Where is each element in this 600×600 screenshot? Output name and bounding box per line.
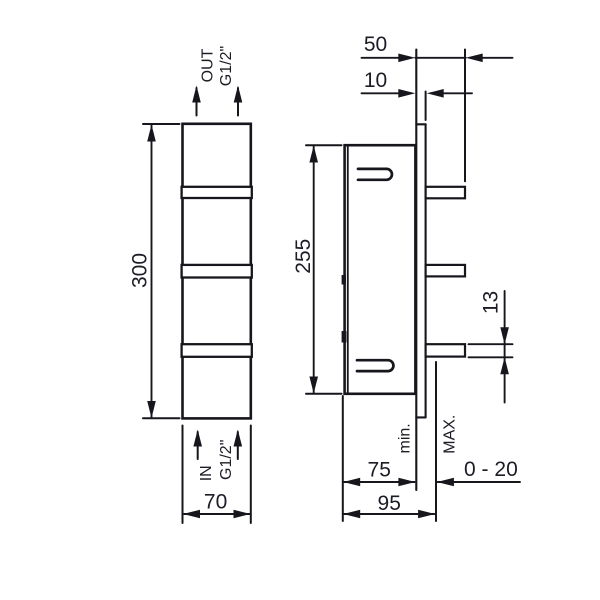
svg-text:255: 255 <box>292 239 315 274</box>
dimension 13 line <box>504 291 506 403</box>
bracket 2 <box>426 265 465 277</box>
IN arrow left (up) <box>193 430 202 447</box>
svg-text:75: 75 <box>368 459 391 482</box>
OUT arrow stems <box>196 88 198 116</box>
flange top closure <box>416 123 425 125</box>
dimension 75 line <box>344 481 415 483</box>
255 bottom arrow (down) <box>309 377 318 394</box>
300 bottom arrow (down) <box>147 401 156 418</box>
dimension 13 tick top <box>469 343 513 345</box>
dimension 0-20 line <box>438 481 520 483</box>
svg-text:0 - 20: 0 - 20 <box>464 458 518 481</box>
95 right arrow <box>418 510 435 519</box>
255 top arrow (up) <box>309 146 318 163</box>
IN arrow stems <box>197 432 199 459</box>
dimension 300 extension tick bottom <box>143 417 180 419</box>
dimension 255 tick bottom <box>306 393 342 395</box>
10 right arrow (points left) <box>427 89 444 98</box>
IN arrow right (up) <box>234 430 243 447</box>
300 top arrow (up) <box>147 125 156 142</box>
dimension 10 line left part <box>362 92 401 94</box>
dimension 300 extension tick top <box>143 123 180 125</box>
left view bar 2 <box>182 265 252 278</box>
left view body <box>183 124 251 419</box>
dimension 70 line <box>184 513 250 515</box>
10 left arrow (points right) <box>398 89 415 98</box>
flange bottom closure <box>416 416 425 418</box>
dimension 13 tick bottom <box>469 356 513 358</box>
dimension 255 line <box>313 146 315 393</box>
0-20 arrow (points left) <box>437 478 454 487</box>
dimension 255 tick top <box>306 144 342 146</box>
svg-text:G1/2": G1/2" <box>218 440 235 480</box>
svg-text:300: 300 <box>129 253 152 288</box>
bracket 3 <box>426 344 465 356</box>
95 left arrow <box>343 510 360 519</box>
svg-text:10: 10 <box>364 69 387 92</box>
extension line x=465 for 50-dim <box>464 50 466 182</box>
left bottom extension of right view <box>342 396 344 521</box>
50 right arrow (points left) <box>466 54 483 63</box>
left view bar 1 <box>182 187 252 198</box>
svg-text:MAX.: MAX. <box>442 415 459 454</box>
small face mark 2 on right view <box>342 331 347 343</box>
right view bottom slot <box>357 360 393 371</box>
small face mark 1 on right view <box>342 275 346 285</box>
svg-text:50: 50 <box>364 33 387 56</box>
svg-text:G1/2": G1/2" <box>218 46 235 86</box>
13 bottom arrow (up) <box>500 357 509 374</box>
svg-text:13: 13 <box>480 291 503 314</box>
svg-text:95: 95 <box>378 492 401 515</box>
OUT arrow left (up) <box>192 86 201 103</box>
left view bottom extension line right <box>250 426 252 524</box>
left view bottom extension line left <box>182 426 184 524</box>
70 left arrow <box>183 510 200 519</box>
75 left arrow <box>343 478 360 487</box>
dimension 10 line right tail <box>443 92 472 94</box>
right view inner face line <box>347 147 349 393</box>
right view top slot <box>358 169 392 180</box>
flange back extension up to 10-dim <box>425 92 427 121</box>
flange back face line <box>425 124 427 417</box>
svg-text:OUT: OUT <box>200 48 217 82</box>
right view body <box>345 145 416 394</box>
dimension 95 line <box>344 513 434 515</box>
50 left arrow (points right) <box>398 54 415 63</box>
OUT arrow right (up) <box>234 86 243 103</box>
75 right arrow <box>398 478 415 487</box>
70 right arrow <box>234 510 251 519</box>
MAX extension line <box>435 362 437 521</box>
dimension 50 line mid part <box>415 57 465 59</box>
left view bar 3 <box>182 344 252 357</box>
dimension 50 line right tail <box>482 57 513 59</box>
flange front face line (also min extension) <box>415 50 417 491</box>
arrows <box>147 54 509 519</box>
13 top arrow (down) <box>500 327 509 344</box>
svg-text:min.: min. <box>397 423 414 453</box>
dimension 300 line <box>151 125 153 418</box>
dimension 50 line left part <box>362 57 401 59</box>
svg-text:70: 70 <box>204 491 227 514</box>
svg-text:IN: IN <box>198 465 215 481</box>
bracket 1 <box>426 187 465 199</box>
